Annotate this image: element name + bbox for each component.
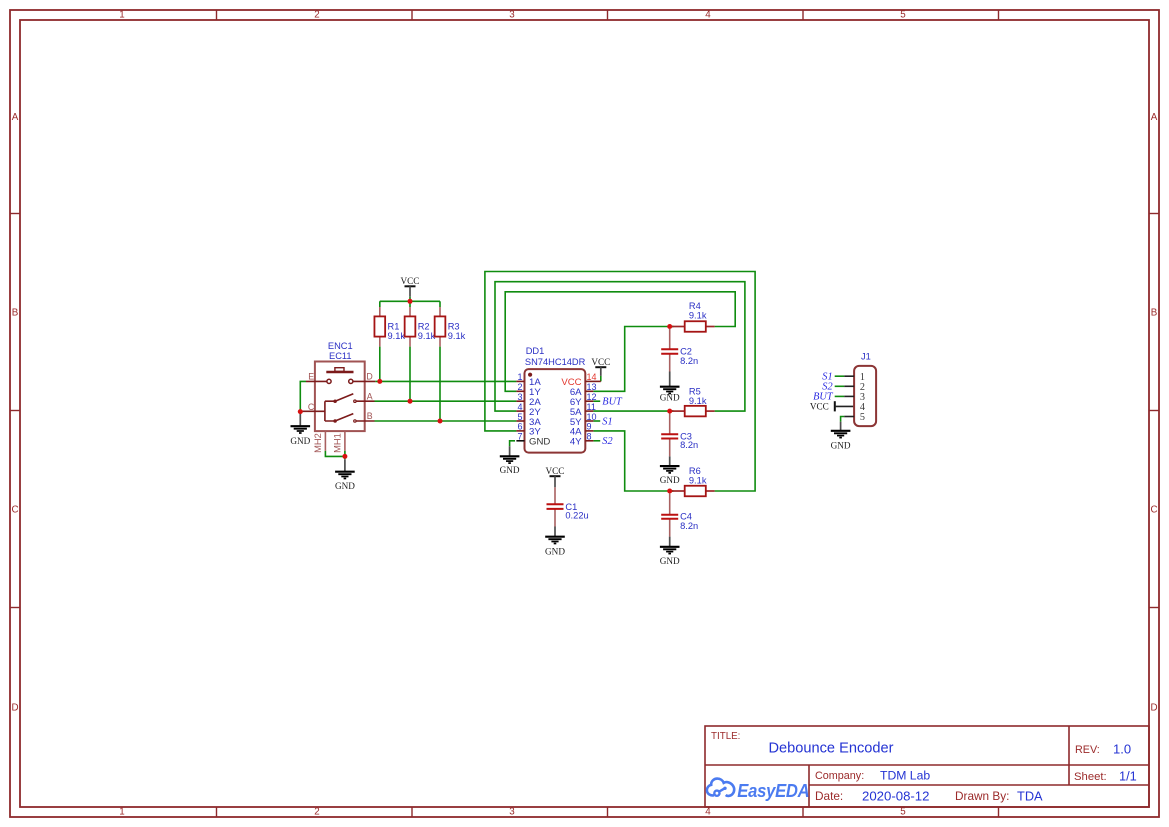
wire R2 bottom to node A — [409, 347, 411, 402]
encoder common bus — [302, 401, 335, 421]
wire IC pin13 6A to C2 node — [593, 327, 673, 392]
svg-text:GND: GND — [545, 546, 565, 556]
power flag VCC top rail — [401, 276, 420, 297]
IC DD1 pin 14 — [585, 380, 601, 382]
junction — [377, 379, 382, 384]
wire IC pin2 1Y loop to R4 — [505, 292, 735, 392]
connector J1 pin 2 — [844, 385, 854, 387]
svg-text:GND: GND — [660, 556, 680, 566]
svg-text:1/1: 1/1 — [1119, 769, 1137, 784]
wire R2 top — [409, 301, 411, 307]
svg-text:9.1k: 9.1k — [689, 396, 707, 406]
svg-text:9.1k: 9.1k — [689, 311, 707, 321]
svg-text:VCC: VCC — [810, 401, 829, 411]
frame tick — [607, 10, 609, 20]
wire IC pin6 3Y loop to R6 — [485, 272, 755, 492]
capacitor C1 0.22u — [547, 487, 589, 526]
svg-text:A: A — [367, 391, 373, 401]
wire J1 pin3 BUT — [835, 395, 845, 397]
connector J1 pin 5 — [844, 416, 854, 418]
svg-text:4: 4 — [517, 402, 522, 412]
capacitor C2 8.2n — [661, 329, 698, 372]
svg-text:GND: GND — [335, 481, 355, 491]
encoder pin E — [306, 380, 327, 382]
wire C3 node stub — [670, 410, 674, 412]
connector J1 body — [854, 366, 876, 426]
svg-text:Debounce Encoder: Debounce Encoder — [769, 741, 894, 757]
svg-text:C: C — [308, 402, 315, 412]
svg-text:E: E — [308, 372, 314, 382]
wire encoder B to IC pin5 — [375, 420, 517, 422]
svg-text:2020-08-12: 2020-08-12 — [862, 788, 929, 803]
svg-text:11: 11 — [587, 402, 596, 412]
IC DD1 pin 2 — [516, 390, 524, 392]
svg-text:4: 4 — [705, 10, 711, 21]
svg-text:GND: GND — [660, 475, 680, 485]
svg-text:1.0: 1.0 — [1113, 742, 1131, 757]
connector J1 pin 1 — [844, 375, 854, 377]
svg-text:1: 1 — [119, 807, 124, 818]
svg-text:8: 8 — [587, 432, 592, 442]
svg-text:4Y: 4Y — [570, 437, 582, 448]
encoder pin label MH2 — [313, 433, 323, 453]
wire MH2 MH1 to ground — [325, 451, 345, 460]
svg-text:B: B — [1151, 307, 1158, 318]
resistor R3 9.1k — [435, 307, 466, 347]
IC DD1 pin 8 — [585, 440, 593, 442]
svg-text:VCC: VCC — [401, 276, 420, 286]
svg-text:GND: GND — [660, 392, 680, 402]
wire C2 node stub — [670, 326, 674, 328]
frame tick — [411, 10, 413, 20]
svg-text:2: 2 — [314, 10, 319, 21]
svg-text:C2: C2 — [680, 347, 692, 357]
capacitor C3 8.2n — [661, 414, 698, 457]
frame tick — [998, 10, 1000, 20]
IC DD1 pin 9 — [585, 430, 593, 432]
svg-text:S1: S1 — [602, 416, 612, 427]
svg-text:R3: R3 — [448, 322, 460, 332]
ground at J1 pin5 — [831, 422, 851, 451]
junction — [667, 489, 672, 494]
wire IC pin8 4Y to S2 — [593, 440, 600, 442]
junction — [342, 454, 347, 459]
wire R3 bottom to node B — [439, 347, 441, 421]
wire IC pin4 2Y loop to R5 — [495, 282, 745, 411]
svg-text:3: 3 — [509, 807, 515, 818]
svg-text:SN74HC14DR: SN74HC14DR — [525, 357, 586, 367]
resistor R2 9.1k — [405, 307, 436, 347]
wire encoder D to IC pin1 — [375, 380, 516, 382]
svg-text:GND: GND — [290, 436, 310, 446]
wire IC pin9 4A to C4 node — [593, 431, 673, 491]
wire R1 top — [379, 301, 381, 307]
ground at C1 — [545, 527, 565, 557]
svg-text:TITLE:: TITLE: — [711, 731, 740, 742]
EasyEDA logo — [707, 779, 810, 802]
IC DD1 pin 4 — [516, 410, 524, 412]
encoder pin MH2 — [324, 431, 326, 451]
IC DD1 pin 1 — [516, 380, 524, 382]
svg-text:D: D — [11, 702, 18, 713]
IC DD1 pin 7 — [516, 440, 524, 442]
frame tick — [10, 410, 20, 412]
IC DD1 pin 3 — [516, 400, 524, 402]
resistor R4 9.1k — [670, 301, 715, 332]
ground at C2 — [660, 372, 680, 403]
svg-text:10: 10 — [587, 412, 597, 422]
title block grid — [705, 726, 1149, 807]
encoder pin label MH1 — [332, 433, 342, 453]
ground at C4 — [660, 537, 680, 567]
svg-text:9: 9 — [587, 422, 592, 432]
svg-text:BUT: BUT — [602, 397, 623, 408]
svg-text:13: 13 — [587, 382, 597, 392]
svg-text:BUT: BUT — [813, 392, 834, 403]
ground at encoder pin C — [290, 413, 310, 446]
svg-text:R6: R6 — [689, 466, 701, 476]
junction — [667, 409, 672, 414]
frame tick — [802, 10, 804, 20]
wire encoder E to C node — [300, 381, 306, 411]
svg-text:9.1k: 9.1k — [388, 331, 406, 341]
svg-text:5: 5 — [517, 412, 522, 422]
power flag VCC at C1 — [546, 466, 565, 487]
IC DD1 pin 11 — [585, 410, 593, 412]
wire encoder A to IC pin3 — [375, 400, 517, 402]
svg-text:GND: GND — [529, 437, 550, 448]
wire R3 top — [439, 301, 441, 307]
svg-text:2: 2 — [314, 807, 319, 818]
IC DD1 pin1 mark — [528, 373, 532, 377]
encoder pin D — [349, 379, 353, 383]
wire VCC stem at IC pin14 — [600, 376, 602, 382]
svg-text:5: 5 — [900, 10, 906, 21]
svg-text:9.1k: 9.1k — [689, 476, 707, 486]
svg-text:12: 12 — [587, 392, 597, 402]
svg-text:Drawn By:: Drawn By: — [955, 789, 1009, 803]
wire R1 bottom to node D — [379, 347, 381, 382]
wire IC pin10 5Y to S1 — [593, 420, 600, 422]
svg-text:1: 1 — [119, 10, 124, 21]
junction — [408, 299, 413, 304]
power flag VCC at J1 pin4 — [810, 401, 854, 411]
encoder button symbol — [326, 371, 353, 374]
svg-text:A: A — [1151, 112, 1158, 123]
wire J1 pin1 S1 — [835, 375, 845, 377]
wire VCC stem green — [409, 297, 411, 302]
svg-text:Sheet:: Sheet: — [1074, 771, 1107, 783]
svg-text:VCC: VCC — [591, 357, 610, 367]
svg-text:J1: J1 — [861, 352, 871, 362]
svg-text:D: D — [366, 372, 372, 382]
encoder switch B — [333, 419, 337, 423]
encoder pin MH1 — [344, 431, 346, 451]
svg-text:TDA: TDA — [1017, 788, 1043, 803]
svg-text:R4: R4 — [689, 301, 701, 311]
svg-text:VCC: VCC — [546, 466, 565, 476]
svg-text:R2: R2 — [418, 322, 430, 332]
svg-text:8.2n: 8.2n — [680, 356, 698, 366]
wire VCC rail to R1 R2 R3 — [380, 300, 440, 302]
frame tick — [10, 607, 20, 609]
svg-text:5: 5 — [860, 412, 865, 423]
svg-text:4: 4 — [705, 807, 711, 818]
svg-text:MH1: MH1 — [332, 433, 342, 453]
svg-text:2: 2 — [517, 382, 522, 392]
svg-text:6: 6 — [517, 422, 522, 432]
resistor R5 9.1k — [670, 387, 715, 417]
svg-text:B: B — [367, 411, 373, 421]
power flag VCC at IC pin14 — [591, 357, 610, 376]
ground at C3 — [660, 456, 680, 485]
svg-text:Company:: Company: — [815, 770, 864, 782]
svg-text:9.1k: 9.1k — [418, 331, 436, 341]
svg-text:5: 5 — [900, 807, 906, 818]
connector J1 pin 3 — [844, 395, 854, 397]
svg-text:EasyEDA: EasyEDA — [737, 780, 809, 801]
svg-text:C: C — [11, 504, 18, 515]
wire J1 pin5 to ground — [841, 417, 845, 422]
wire IC pin7 to ground — [510, 441, 515, 446]
svg-text:3: 3 — [509, 10, 515, 21]
svg-text:1: 1 — [517, 372, 522, 382]
IC DD1 pin 5 — [516, 420, 524, 422]
ground at IC pin7 — [500, 446, 520, 475]
svg-text:C: C — [1150, 504, 1157, 515]
ground at encoder MH pins — [335, 459, 355, 491]
wire C4 node stub — [670, 490, 674, 492]
svg-text:14: 14 — [587, 372, 597, 382]
svg-text:EC11: EC11 — [329, 351, 352, 361]
svg-text:R5: R5 — [689, 387, 701, 397]
svg-text:REV:: REV: — [1075, 744, 1100, 756]
svg-text:GND: GND — [500, 465, 520, 475]
svg-text:8.2n: 8.2n — [680, 440, 698, 450]
svg-text:B: B — [12, 307, 19, 318]
svg-text:3: 3 — [517, 392, 522, 402]
svg-text:Date:: Date: — [815, 789, 843, 803]
svg-text:0.22u: 0.22u — [565, 511, 588, 521]
resistor R6 9.1k — [670, 466, 715, 496]
IC DD1 pin 12 — [585, 400, 593, 402]
capacitor C4 8.2n — [661, 493, 698, 536]
junction — [438, 419, 443, 424]
wire J1 pin2 S2 — [835, 385, 845, 387]
svg-text:ENC1: ENC1 — [328, 341, 353, 351]
encoder ENC1 body — [315, 362, 365, 432]
svg-text:8.2n: 8.2n — [680, 521, 698, 531]
svg-text:TDM Lab: TDM Lab — [880, 768, 930, 782]
junction — [298, 409, 303, 414]
svg-text:S2: S2 — [602, 436, 612, 447]
resistor R1 9.1k — [374, 307, 405, 347]
svg-text:DD1: DD1 — [526, 346, 545, 356]
encoder switch A — [333, 399, 337, 403]
svg-text:MH2: MH2 — [313, 433, 323, 453]
wire IC pin12 6Y to BUT — [593, 400, 600, 402]
junction — [408, 399, 413, 404]
IC DD1 pin 10 — [585, 420, 593, 422]
svg-text:A: A — [12, 112, 19, 123]
svg-text:R1: R1 — [388, 322, 400, 332]
frame tick — [10, 213, 20, 215]
IC DD1 pin 6 — [516, 430, 524, 432]
frame tick — [216, 10, 218, 20]
wire IC pin11 5A to C3 node — [593, 410, 673, 412]
junction — [667, 324, 672, 329]
svg-text:D: D — [1150, 702, 1157, 713]
svg-text:7: 7 — [517, 432, 522, 442]
svg-text:GND: GND — [831, 440, 851, 450]
svg-text:9.1k: 9.1k — [448, 331, 466, 341]
IC DD1 body — [525, 369, 586, 453]
IC DD1 pin 13 — [585, 390, 593, 392]
